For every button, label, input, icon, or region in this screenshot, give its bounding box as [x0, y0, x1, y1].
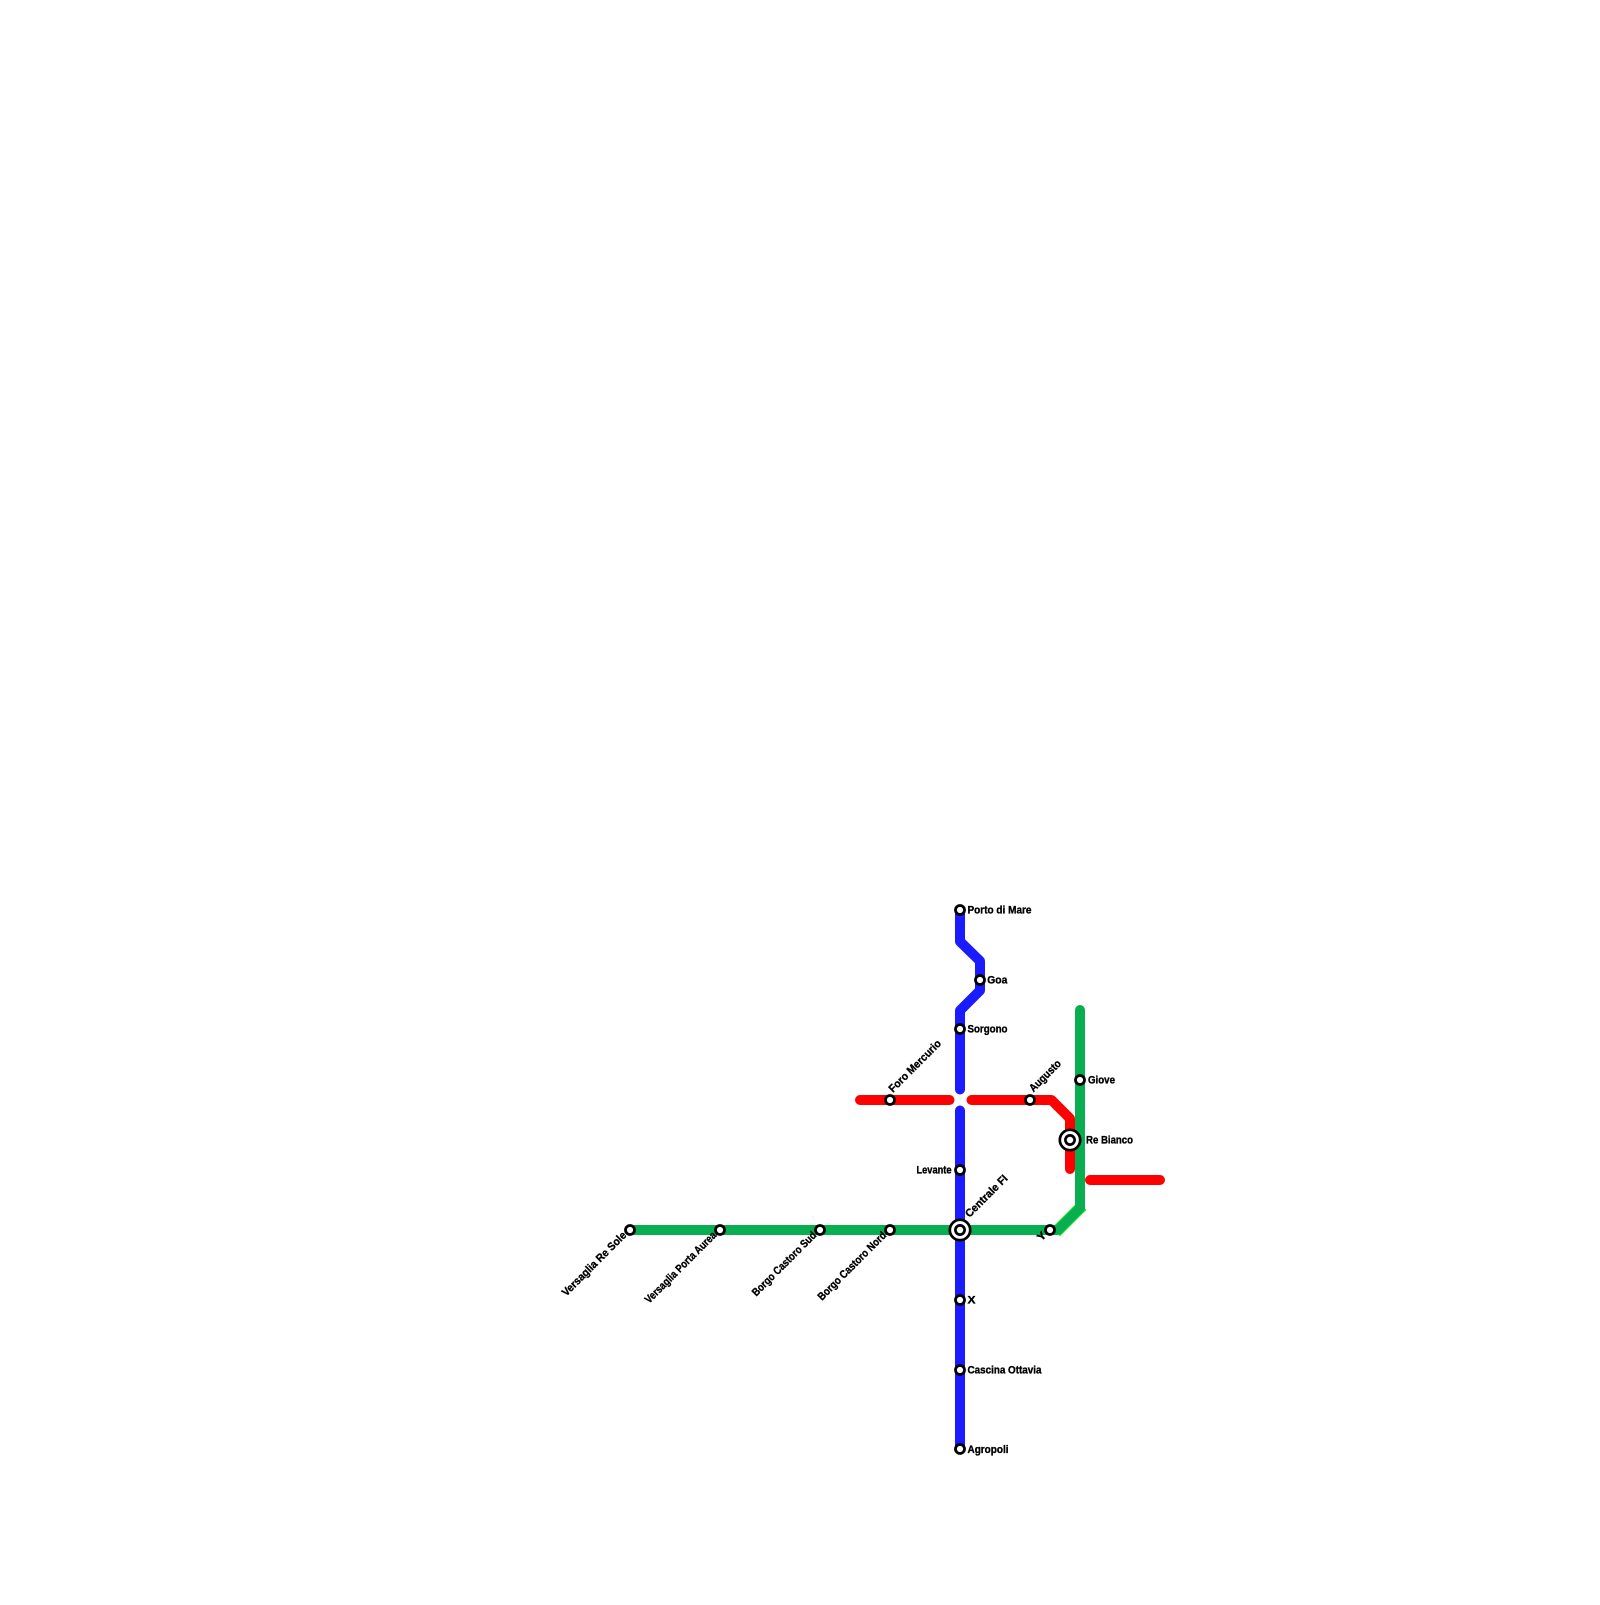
green line — [630, 1010, 1080, 1230]
svg-text:Cascina Ottavia: Cascina Ottavia — [968, 1365, 1043, 1377]
svg-text:Giove: Giove — [1088, 1075, 1115, 1087]
station Cascina Ottavia — [956, 1366, 965, 1375]
station Goa — [976, 976, 985, 985]
station Giove — [1076, 1076, 1085, 1085]
station Versaglia Porta Aurea — [716, 1226, 725, 1235]
svg-text:Sorgono: Sorgono — [968, 1024, 1008, 1036]
red line southeast segment — [1090, 1175, 1160, 1185]
svg-text:Porto di Mare: Porto di Mare — [968, 905, 1032, 917]
svg-text:X: X — [968, 1295, 977, 1307]
station Versaglia Re Sole — [626, 1226, 635, 1235]
station Agropoli — [956, 1445, 965, 1454]
station Borgo Castoro Sud — [816, 1226, 825, 1235]
station Foro Mercurio — [886, 1096, 895, 1105]
station Porto di Mare — [956, 906, 965, 915]
interchange Centrale FI — [950, 1220, 970, 1240]
green line bright corner underlay — [1056, 1206, 1082, 1232]
station Augusto — [1026, 1096, 1035, 1105]
svg-text:Re Bianco: Re Bianco — [1086, 1135, 1133, 1147]
station Sorgono — [956, 1025, 965, 1034]
station X — [956, 1296, 965, 1305]
blue line north segment with zigzag — [960, 910, 980, 1090]
red line east segment with bend to Re Bianco — [972, 1100, 1071, 1169]
red line west segment — [860, 1095, 950, 1105]
svg-text:Agropoli: Agropoli — [968, 1444, 1009, 1456]
station Levante — [956, 1166, 965, 1175]
interchange Re Bianco — [1060, 1130, 1080, 1150]
station Y — [1046, 1226, 1055, 1235]
svg-text:Levante: Levante — [917, 1165, 952, 1177]
svg-text:Goa: Goa — [987, 974, 1008, 986]
station Borgo Castoro Nord — [886, 1226, 895, 1235]
blue line south segment — [955, 1111, 965, 1450]
